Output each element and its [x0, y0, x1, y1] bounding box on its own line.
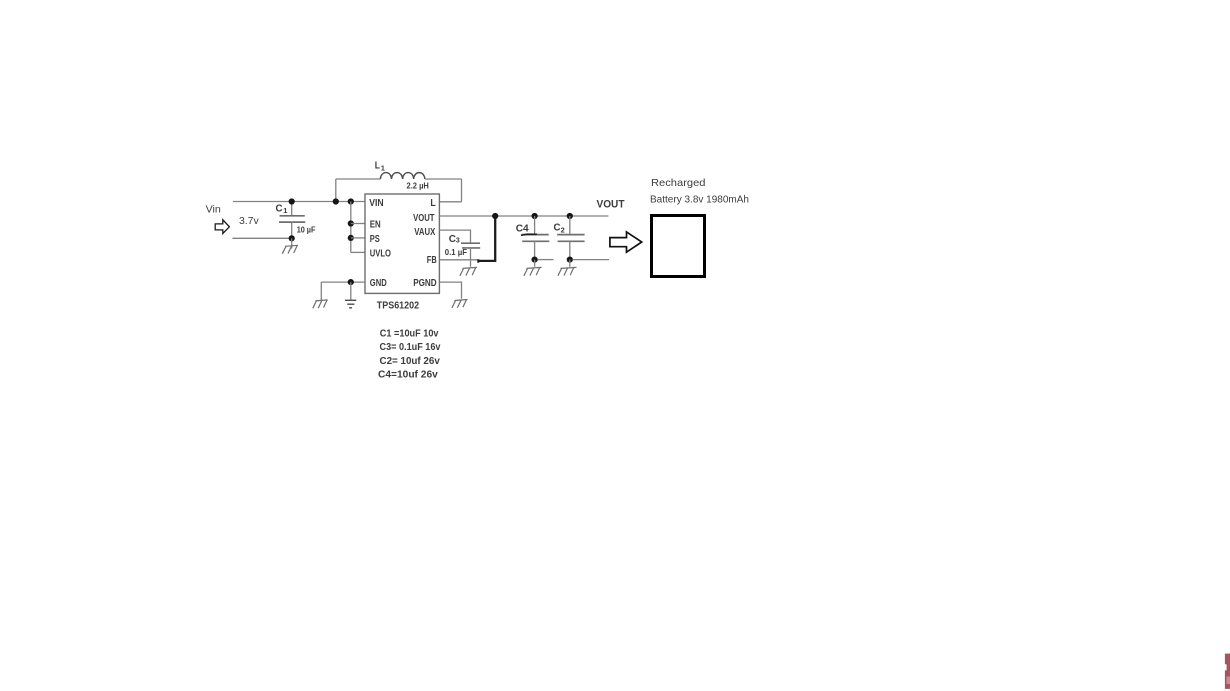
- svg-text:Recharged: Recharged: [651, 177, 706, 189]
- node junction PS: [348, 235, 354, 241]
- svg-text:GND: GND: [370, 278, 387, 289]
- output arrow: [610, 232, 642, 252]
- wire VAUX pin: [439, 230, 470, 243]
- wire GND left vertical: [320, 282, 322, 300]
- svg-text:1: 1: [381, 164, 385, 173]
- label Recharged: [651, 177, 706, 189]
- svg-text:Battery 3.8v 1980mAh: Battery 3.8v 1980mAh: [650, 194, 749, 205]
- svg-text:VIN: VIN: [369, 198, 383, 209]
- wire PGND pin: [439, 282, 461, 299]
- ground chassis under C3: [460, 267, 477, 275]
- capacitor C2: [557, 216, 584, 260]
- ground chassis under C1: [282, 245, 298, 253]
- wire FB pin: [439, 259, 478, 261]
- svg-text:2.2 µH: 2.2 µH: [407, 181, 429, 191]
- input arrow: [215, 220, 229, 234]
- value label 10 uF: [297, 225, 316, 235]
- wire bottom input: [232, 237, 291, 239]
- svg-text:PS: PS: [370, 234, 380, 245]
- pin UVLO label: [370, 249, 391, 260]
- ground chassis under C4: [524, 267, 542, 275]
- wire L1 left horizontal: [336, 178, 381, 180]
- wire L1 right horizontal: [425, 178, 462, 180]
- svg-text:L: L: [375, 160, 381, 172]
- svg-text:C: C: [276, 203, 283, 215]
- node junction L1 branch: [333, 198, 339, 204]
- value label 3.7v: [239, 215, 259, 227]
- pin EN label: [370, 220, 381, 231]
- battery box: [652, 216, 705, 277]
- wire EN/PS branch vertical: [350, 202, 352, 253]
- svg-text:VOUT: VOUT: [413, 213, 434, 224]
- pin PGND label: [413, 278, 437, 289]
- node junction VOUT-FB: [492, 213, 498, 219]
- svg-text:TPS61202: TPS61202: [377, 300, 419, 312]
- label C3: [449, 233, 460, 245]
- capacitor C4: [521, 216, 549, 260]
- wire C2 bottom stub: [572, 259, 609, 261]
- node junction C4 bottom: [532, 257, 538, 263]
- wire C4 bottom stub: [538, 259, 554, 261]
- svg-text:C4: C4: [516, 223, 529, 235]
- ground chassis under C2: [558, 267, 577, 275]
- svg-text:C3= 0.1uF 16v: C3= 0.1uF 16v: [380, 342, 441, 353]
- wire UVLO pin: [351, 251, 365, 253]
- svg-text:C4=10uf 26v: C4=10uf 26v: [378, 370, 438, 381]
- pin VOUT label: [413, 213, 434, 224]
- label C2: [554, 222, 565, 235]
- wire GND earth lead: [350, 282, 352, 300]
- svg-text:VAUX: VAUX: [414, 227, 435, 238]
- wire L pin: [439, 201, 461, 203]
- wire VOUT rail: [439, 215, 608, 217]
- value note C1: [380, 329, 439, 340]
- wire L1 right vertical: [461, 179, 463, 202]
- pin VIN label: [369, 198, 383, 209]
- pin FB label: [427, 255, 437, 266]
- node junction GND: [348, 279, 354, 285]
- label L1: [375, 160, 385, 173]
- svg-text:FB: FB: [427, 255, 437, 266]
- node junction EN/PS branch top: [348, 198, 354, 204]
- svg-text:3: 3: [456, 238, 460, 245]
- wire C4 ground lead: [534, 260, 536, 267]
- svg-text:3.7v: 3.7v: [239, 215, 259, 227]
- value label 0.1 uF: [445, 247, 467, 257]
- node junction C4 top: [532, 213, 538, 219]
- svg-text:VOUT: VOUT: [597, 199, 625, 211]
- inductor L1: [380, 173, 424, 179]
- wire PS pin: [351, 237, 365, 239]
- wire C1 ground lead: [291, 238, 293, 248]
- svg-text:1: 1: [283, 206, 287, 215]
- svg-text:C1 =10uF 10v: C1 =10uF 10v: [380, 329, 439, 340]
- node junction C1 bottom: [289, 235, 295, 241]
- wire C2 ground lead: [569, 260, 571, 267]
- node junction C2 top: [567, 213, 573, 219]
- label C1: [276, 203, 288, 216]
- svg-text:L: L: [430, 198, 435, 209]
- wire thick VOUT to FB feedback: [478, 219, 495, 263]
- value label 2.2 uH: [407, 181, 429, 191]
- value note C2: [380, 356, 441, 367]
- wire EN pin: [351, 223, 365, 225]
- pin VAUX label: [414, 227, 435, 238]
- node Vin label: [206, 205, 221, 216]
- pin L label: [430, 198, 435, 209]
- svg-text:10 µF: 10 µF: [297, 225, 316, 235]
- label C4: [516, 223, 529, 235]
- watermark corner badge: [1224, 654, 1230, 689]
- svg-text:UVLO: UVLO: [370, 249, 391, 260]
- svg-text:2: 2: [561, 225, 565, 234]
- value note C3: [380, 342, 441, 353]
- label TPS61202: [377, 300, 419, 312]
- wire L1 left branch vertical: [335, 179, 337, 202]
- value note C4: [378, 370, 438, 381]
- node junction C2 bottom: [567, 257, 573, 263]
- label Battery 3.8v 1980mAh: [650, 194, 749, 205]
- ground chassis left of GND: [313, 300, 328, 308]
- node junction EN: [348, 220, 354, 226]
- capacitor C1: [279, 202, 305, 239]
- svg-text:0.1 µF: 0.1 µF: [445, 247, 467, 257]
- ground earth under GND: [345, 300, 356, 308]
- pin GND label: [370, 278, 387, 289]
- wire GND pin: [321, 281, 365, 283]
- node junction C1 top: [289, 198, 295, 204]
- svg-text:PGND: PGND: [413, 278, 437, 289]
- op-amp U1 TPS61202 body: [365, 194, 439, 293]
- svg-text:EN: EN: [370, 220, 381, 231]
- node VOUT net label: [597, 199, 625, 211]
- pin PS label: [370, 234, 380, 245]
- svg-text:C2= 10uf 26v: C2= 10uf 26v: [380, 356, 441, 367]
- ground chassis under PGND: [452, 300, 468, 308]
- capacitor C3: [461, 243, 480, 267]
- wire top input: [233, 201, 365, 203]
- svg-text:Vin: Vin: [206, 205, 221, 216]
